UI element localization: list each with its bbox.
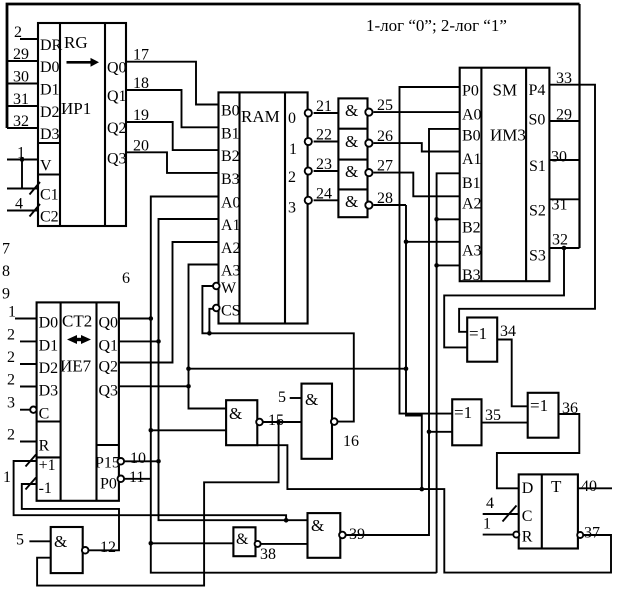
svg-text:30: 30 [551,149,567,166]
svg-text:&: & [345,162,358,181]
RAM output 2 bubble [305,167,312,174]
svg-text:A0: A0 [462,107,482,124]
counter U5 left divider [60,302,62,500]
wire net 37 feedback to h489 and gate15 [257,445,611,572]
svg-text:28: 28 [377,190,393,207]
svg-text:2: 2 [288,169,296,186]
counter right section divider [97,444,119,446]
wire net 28 [374,204,407,206]
svg-text:1: 1 [17,145,25,162]
AND gate stack divider 3 [338,188,367,190]
wire net 23 [314,170,339,172]
svg-text:25: 25 [377,97,393,114]
svg-text:6: 6 [122,270,130,287]
wire counter +1 to gate39 input1 rail [14,461,287,520]
wire net 26 to SM A1 [374,143,460,151]
svg-text:D1: D1 [39,337,59,354]
svg-text:20: 20 [133,137,149,154]
svg-text:D2: D2 [40,104,60,121]
svg-text:7: 7 [2,241,10,258]
svg-text:D0: D0 [39,315,59,332]
svg-text:&: & [229,404,242,423]
AND gate stack divider 1 [338,128,367,130]
svg-text:B0: B0 [221,103,240,120]
wire net 39 vertical to SM B0 [346,129,460,535]
gate 39 AND box [308,513,341,558]
RAM U2 left divider [238,92,240,323]
svg-text:34: 34 [500,323,516,340]
wire net 15 branch to gate 12 input 2 [37,422,279,586]
wire net 17 Q0 to RAM B0 [126,62,219,105]
wire 11 from P0 [125,478,151,480]
svg-text:16: 16 [343,433,359,450]
wire net 29 S0 [549,120,579,122]
node junction V to C1 [20,157,25,162]
svg-text:Q1: Q1 [99,337,119,354]
wire net A0 vertical and bottom rail [151,197,437,573]
svg-text:5: 5 [16,532,24,549]
svg-text:&: & [345,192,358,211]
wire net 16 to RAM W and CS [202,286,353,422]
wire counter D2 stub [20,363,37,365]
svg-text:DR: DR [40,37,63,54]
svg-text:36: 36 [562,400,578,417]
register shift arrow [67,58,100,67]
wire SM P0 stub and vertical to gate 35 [400,87,460,414]
svg-text:S1: S1 [529,158,546,175]
node junction net28 wire369 [404,366,409,371]
wire net 35 to gate 36 input 2 [482,422,528,424]
svg-text:D: D [522,480,534,497]
wire counter Q0 to A0 net [119,318,151,320]
counter P15 output bubble [118,458,125,465]
svg-text:3: 3 [288,200,296,217]
svg-text:&: & [345,132,358,151]
wire net A3 to net28 link [189,368,407,370]
svg-text:A2: A2 [221,240,241,257]
svg-text:B1: B1 [462,175,481,192]
flip-flop U6 T box [519,474,578,548]
AND gate stack divider 2 [338,159,367,161]
wire SM B3 stub [437,264,460,266]
svg-text:&: & [345,101,358,120]
wire counter D3 stub [20,386,37,388]
wire SM A3 stub [406,241,460,243]
counter section divider below C [37,420,61,422]
wire counter D0 stub [15,318,37,320]
svg-text:Q0: Q0 [99,315,119,332]
node junction wire10 A1 [156,459,161,464]
wire net 32 D3 [7,127,38,129]
wire net 38 to gate 39 input 2 [261,543,308,545]
svg-text:40: 40 [581,478,597,495]
wire net 19 Q2 to RAM B2 [126,122,219,150]
svg-text:C1: C1 [40,187,59,204]
svg-text:22: 22 [316,127,332,144]
svg-text:RG: RG [64,33,88,52]
gate 12 AND box [51,527,83,573]
node junction +1 rail gate39 wire [284,518,289,523]
svg-text:SM: SM [493,81,518,100]
svg-text:D3: D3 [39,383,59,400]
wire counter Q3 to A3 net [119,385,189,387]
svg-text:A1: A1 [462,151,482,168]
svg-text:B2: B2 [462,220,481,237]
svg-text:31: 31 [552,197,568,214]
adder U4 SM box [460,68,550,282]
svg-text:17: 17 [133,47,149,64]
wire B bus vertical B1 B2 B3 [437,173,460,573]
flip-flop divider [541,474,543,548]
flip-flop R bubble [513,532,519,538]
dynamic input slash +1 [26,455,37,467]
wire net 12 output to counter -1 [22,484,119,550]
node junction Q1 A1 [156,339,161,344]
wire net 30 D1 [7,83,38,85]
wire counter Q1 to A1 net [119,340,159,342]
svg-text:S2: S2 [529,203,546,220]
svg-text:2: 2 [7,427,15,444]
svg-text:1-лог “0”; 2-лог “1”: 1-лог “0”; 2-лог “1” [366,16,507,35]
svg-text:P15: P15 [95,455,120,472]
svg-text:D0: D0 [40,59,60,76]
gate 15 output bubble [256,419,263,426]
node junction Q3 A3 [186,384,191,389]
svg-text:8: 8 [2,263,10,280]
svg-text:=1: =1 [530,396,548,415]
register U1 right divider [104,23,106,226]
svg-text:&: & [54,532,67,551]
wire net 36 to flip-flop D [497,414,579,488]
register U1 left divider [59,23,61,226]
RAM U2 box [219,92,308,323]
svg-text:D1: D1 [40,82,60,99]
svg-text:Q3: Q3 [99,382,119,399]
svg-text:Q3: Q3 [107,150,127,167]
wire RAM CS from net16 [209,309,212,334]
node junction Bbus B3 [434,263,439,268]
svg-text:CS: CS [221,302,241,319]
svg-text:C2: C2 [40,209,59,226]
node junction gate35 input2 net39 [427,430,432,435]
svg-text:18: 18 [133,75,149,92]
svg-text:A1: A1 [221,217,241,234]
node junction net15 branch [276,420,281,425]
wire net A3 vertical to gate 15 input 1 [189,265,227,409]
wire net 31 S2 [549,198,579,200]
svg-text:2: 2 [7,326,15,343]
node junction net28 A3 [404,240,409,245]
svg-text:21: 21 [316,98,332,115]
wire net 15 to gate 16 input 2 [263,421,301,423]
svg-text:9: 9 [2,285,10,302]
svg-text:33: 33 [556,70,572,87]
wire bus frame: left bus, top bus, right bus [7,4,580,128]
dynamic input slash C1 [30,182,41,195]
svg-text:B1: B1 [221,125,240,142]
node junction CS net16 [207,331,212,336]
svg-text:29: 29 [556,107,572,124]
svg-text:31: 31 [13,91,29,108]
counter section divider below R [37,456,61,458]
node junction Q0 A0 [149,316,154,321]
gate 38 output bubble [255,541,261,547]
svg-text:4: 4 [486,495,494,512]
RAM U2 right divider [284,92,286,323]
svg-text:D3: D3 [40,126,60,143]
wire 10 from P15 [125,460,159,462]
svg-text:Q1: Q1 [107,88,127,105]
wire net 21 [314,112,339,114]
wire net 28 vertical with A3 stub [406,205,422,489]
svg-text:3: 3 [7,395,15,412]
svg-text:A3: A3 [462,243,482,260]
wire 1 stub to flip-flop R [483,534,513,536]
svg-text:P4: P4 [529,82,546,99]
gate 15 AND box [226,400,257,445]
wire gate 38 input from A0 net [151,542,234,544]
node junction A0 gate15 [149,428,154,433]
node junction net28 h489 [420,487,425,492]
wire 4 stub to flip-flop C [483,513,519,515]
node junction Bbus B2 [434,217,439,222]
wire V to C1 vertical [21,160,23,189]
gate 39 output bubble [339,532,346,539]
wire net 31 D2 [7,105,38,107]
svg-text:23: 23 [316,156,332,173]
svg-text:B3: B3 [221,171,240,188]
svg-text:Q2: Q2 [99,359,119,376]
register U1 section divider above V [38,142,60,144]
wire net 30 S1 [549,159,579,161]
svg-text:19: 19 [133,107,149,124]
svg-text:1: 1 [289,141,297,158]
AND gate 4 output bubble [365,202,372,209]
gate 38 AND box [233,527,255,556]
wire 40 output stub [578,487,612,489]
svg-text:-1: -1 [39,480,52,497]
svg-text:Q0: Q0 [107,60,127,77]
wire gate 35 input 2 [429,431,452,433]
svg-text:1: 1 [483,516,491,533]
RAM inverted input W bubble [213,283,220,290]
svg-text:30: 30 [13,69,29,86]
svg-text:V: V [40,158,52,175]
counter P0 output bubble [118,476,125,483]
svg-text:S0: S0 [529,112,546,129]
flip-flop output 37 bubble [577,532,583,538]
dynamic input slash flip-flop C [503,506,517,522]
svg-text:A0: A0 [221,195,241,212]
svg-text:26: 26 [377,128,393,145]
svg-text:2: 2 [14,24,22,41]
gate 16 AND box [302,384,333,459]
wire 5 stub gate 16 [290,397,302,399]
wire net A2 to counter Q2 [119,242,219,363]
wire net 24 [314,199,339,201]
RAM output 3 bubble [305,197,312,204]
svg-text:5: 5 [278,389,286,406]
svg-text:T: T [551,477,562,496]
counter bidirectional arrow [67,335,91,344]
node junction S3 tap [562,246,567,251]
adder U4 left divider [480,68,482,282]
wire gate 34 output to gate 36 input 1 [497,340,528,407]
svg-text:&: & [305,390,318,409]
RAM inverted input CS bubble [213,305,220,312]
svg-text:B0: B0 [462,128,481,145]
svg-text:2: 2 [7,349,15,366]
svg-text:38: 38 [260,546,276,563]
wire counter R stub [20,441,37,443]
wire C1 [7,188,38,190]
svg-text:24: 24 [316,185,332,202]
wire net 25 to SM A0 [374,111,460,113]
wire SM B2 stub [437,218,460,220]
svg-text:=1: =1 [454,403,472,422]
RAM output 0 bubble [305,109,312,116]
svg-text:D2: D2 [39,360,59,377]
svg-text:CT2: CT2 [62,312,92,331]
gate 35 XOR box [452,399,481,445]
svg-text:29: 29 [13,46,29,63]
wire net A1 vertical to gate 39 input 1 [159,219,308,520]
svg-text:0: 0 [288,110,296,127]
svg-text:S3: S3 [529,248,546,265]
register U1 ИР1 box [38,23,126,226]
svg-text:A2: A2 [462,196,482,213]
svg-text:11: 11 [129,469,144,486]
wire S3 tap to gate 34 input 2 [444,248,564,347]
svg-text:ИМ3: ИМ3 [490,126,526,145]
svg-text:P0: P0 [462,83,479,100]
AND gate 3 output bubble [365,169,372,176]
svg-text:32: 32 [552,232,568,249]
svg-text:27: 27 [377,158,393,175]
svg-text:35: 35 [485,407,501,424]
svg-text:10: 10 [130,450,146,467]
wire pin 1 V [7,159,38,161]
node junction A3 link [186,366,191,371]
gate 12 output bubble [82,547,89,554]
gate 36 XOR box [528,393,559,438]
wire 5 stub gate 12 [29,540,50,542]
svg-text:W: W [221,280,237,297]
wire right bus vertical [578,4,580,248]
svg-text:4: 4 [15,196,23,213]
svg-text:39: 39 [349,526,365,543]
wire net 29 D0 [7,60,38,62]
svg-text:RAM: RAM [241,107,280,126]
svg-text:&: & [311,516,324,535]
dynamic input slash -1 [26,478,37,490]
svg-text:2: 2 [7,372,15,389]
wire net 32 S3 [549,247,579,249]
svg-text:ИЕ7: ИЕ7 [60,357,92,376]
svg-text:C: C [39,406,50,423]
svg-text:A3: A3 [221,263,241,280]
wire net 18 Q1 to RAM B1 [126,90,219,127]
node junction A0 gate38 [149,541,154,546]
wire net 27 to SM A2 [374,173,460,197]
wire gate15 input 2 from A0 [151,429,226,431]
svg-text:Q2: Q2 [107,120,127,137]
wire counter C stub [20,409,30,411]
wire net 33 P4 to gate 34 input 1 [459,85,595,332]
svg-text:ИР1: ИР1 [61,99,91,118]
wire net 20 Q3 to RAM B3 [126,152,219,173]
svg-text:P0: P0 [100,476,117,493]
wire net 22 [314,141,339,143]
svg-text:32: 32 [13,113,29,130]
RAM output 1 bubble [305,138,312,145]
dynamic input slash C2 [30,204,41,217]
counter U5 CT2 box [37,302,119,500]
svg-text:C: C [522,508,533,525]
wire counter D1 stub [20,340,37,342]
svg-text:1: 1 [3,469,11,486]
svg-text:B3: B3 [462,267,481,284]
wire pin 2 DR [20,38,38,40]
gate 16 output bubble [331,418,338,425]
register U1 section divider below V [38,173,60,175]
svg-text:+1: +1 [39,457,56,474]
gate 34 XOR box [467,318,497,362]
counter inverted C bubble [30,407,36,413]
AND gate 2 output bubble [365,140,372,147]
wire pin 4 C2 [7,210,38,212]
svg-text:37: 37 [584,525,600,542]
svg-text:&: & [236,531,249,548]
svg-text:R: R [522,529,533,546]
svg-text:12: 12 [100,539,116,556]
counter U5 right divider [95,302,97,500]
AND gate stack U3 box [338,98,367,217]
svg-text:1: 1 [8,304,16,321]
svg-text:R: R [39,438,50,455]
svg-text:=1: =1 [469,324,487,343]
AND gate 1 output bubble [365,109,372,116]
adder U4 right divider [525,68,527,282]
svg-text:15: 15 [268,412,284,429]
svg-text:B2: B2 [221,148,240,165]
